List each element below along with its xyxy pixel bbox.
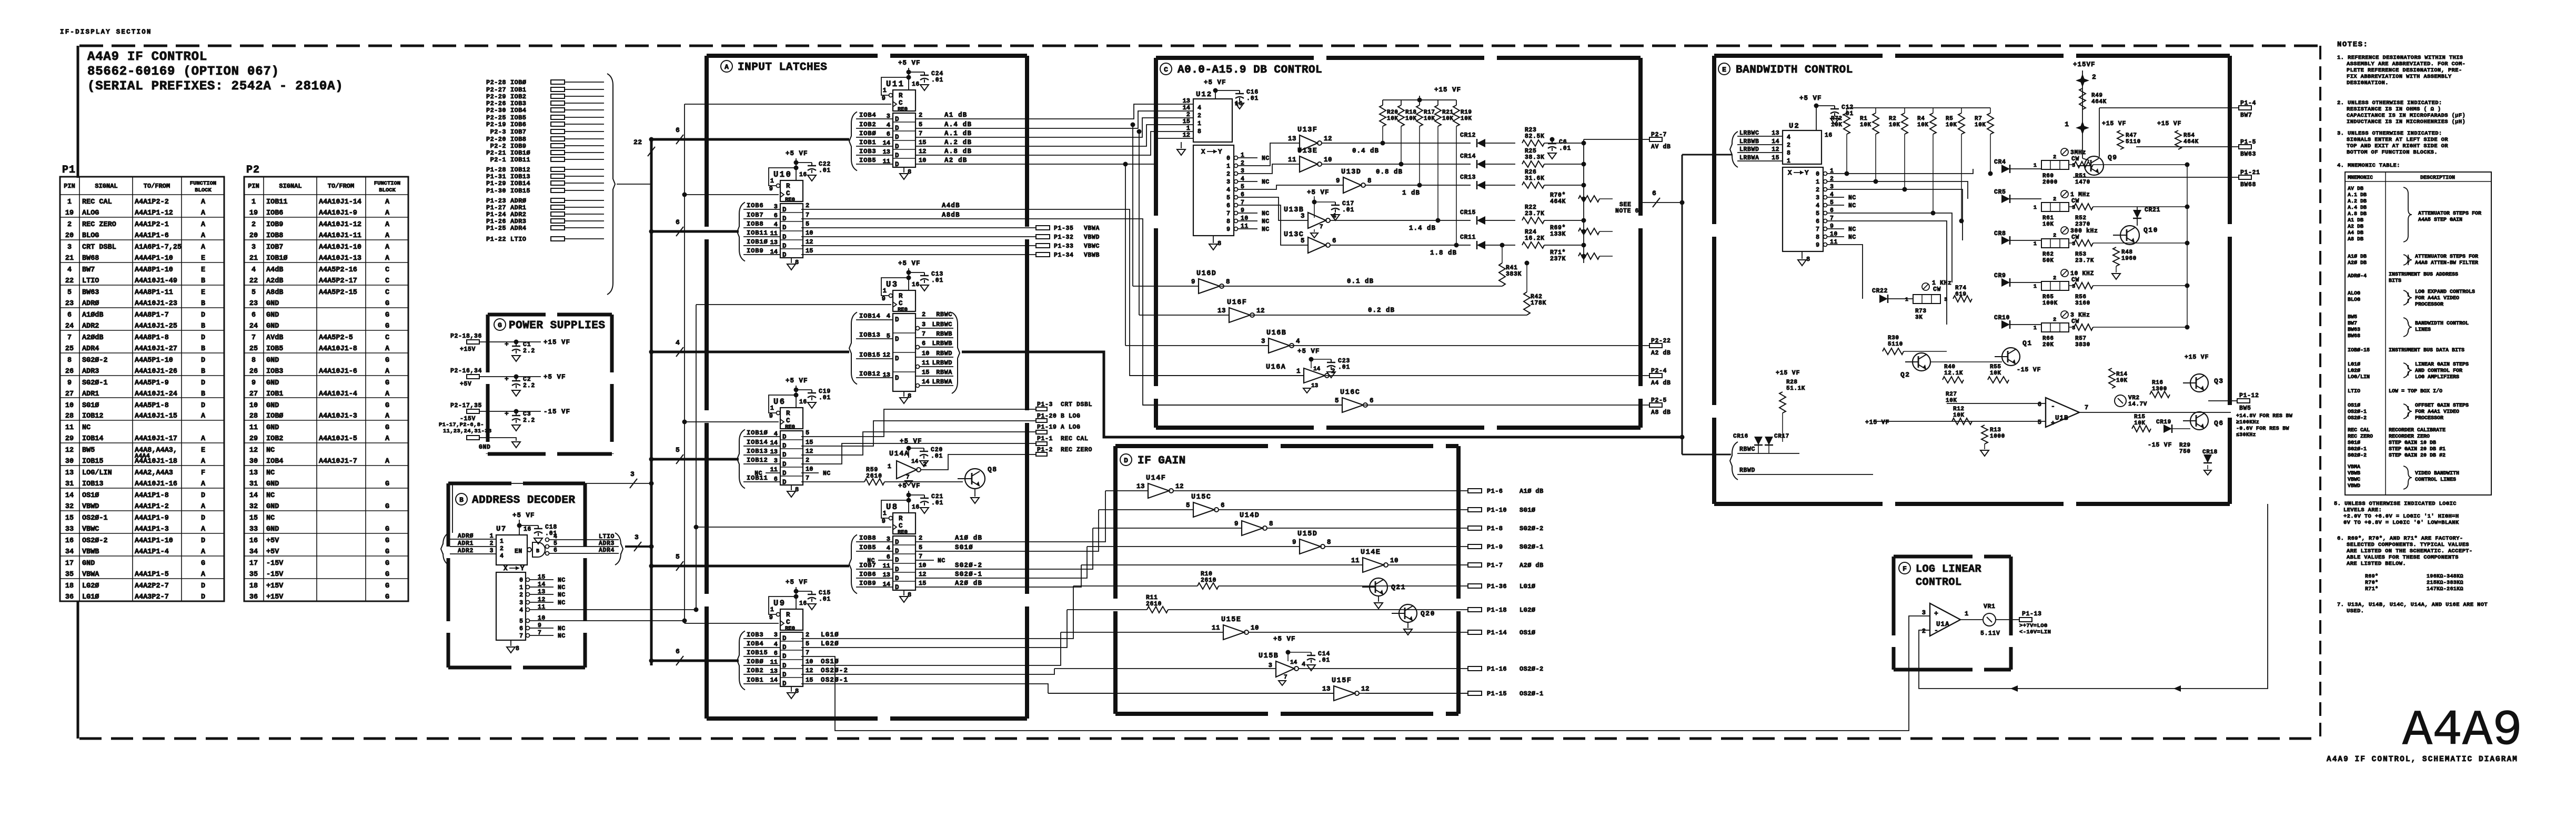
svg-text:B: B xyxy=(459,496,464,504)
svg-text:BANDWIDTH CONTROL: BANDWIDTH CONTROL xyxy=(1736,64,1853,76)
svg-text:7: 7 xyxy=(922,330,925,338)
svg-text:5: 5 xyxy=(806,429,809,437)
svg-text:1.4 dB: 1.4 dB xyxy=(1409,225,1436,232)
svg-text:14: 14 xyxy=(883,139,890,147)
svg-text:BOTTOM OF FUNCTION BLOCKS.: BOTTOM OF FUNCTION BLOCKS. xyxy=(2347,149,2438,156)
svg-text:RBWD: RBWD xyxy=(1739,467,1755,474)
svg-text:A4A2,A4A3: A4A2,A4A3 xyxy=(135,469,173,477)
svg-text:REC ZERO: REC ZERO xyxy=(1061,447,1092,453)
svg-text:IOB4: IOB4 xyxy=(510,107,526,114)
svg-text:11: 11 xyxy=(770,466,778,473)
svg-text:GND: GND xyxy=(266,379,279,387)
svg-text:TO/FROM: TO/FROM xyxy=(144,183,170,190)
svg-text:-15 VF: -15 VF xyxy=(2148,442,2172,449)
svg-text:R1: R1 xyxy=(1860,116,1867,122)
svg-text:3: 3 xyxy=(519,600,523,606)
svg-text:7: 7 xyxy=(919,553,922,560)
svg-text:D: D xyxy=(201,334,205,342)
svg-text:IOB3: IOB3 xyxy=(747,631,763,639)
svg-text:ADRØ: ADRØ xyxy=(82,300,99,308)
svg-text:1.8 dB: 1.8 dB xyxy=(1430,249,1457,257)
svg-text:A4A8P1-7: A4A8P1-7 xyxy=(135,311,169,319)
svg-text:GND: GND xyxy=(82,560,95,568)
svg-text:1000: 1000 xyxy=(1990,433,2005,440)
svg-text:A4A10J1-7: A4A10J1-7 xyxy=(319,458,357,466)
svg-text:NOTES:: NOTES: xyxy=(2337,41,2368,49)
svg-text:ADR2: ADR2 xyxy=(82,322,99,330)
svg-text:23: 23 xyxy=(249,300,258,308)
svg-text:.01: .01 xyxy=(1338,364,1350,371)
svg-text:BW68: BW68 xyxy=(2240,181,2256,188)
svg-text:VBWA: VBWA xyxy=(82,571,99,579)
svg-text:P1-31: P1-31 xyxy=(486,173,506,180)
svg-text:13: 13 xyxy=(883,148,890,156)
svg-text:A: A xyxy=(385,209,390,217)
svg-text:IOB7: IOB7 xyxy=(859,562,876,569)
svg-text:A4A10J1-8: A4A10J1-8 xyxy=(319,345,357,353)
svg-text:A4A1P2-2: A4A1P2-2 xyxy=(135,198,169,206)
svg-text:A8dB: A8dB xyxy=(942,211,960,219)
svg-text:FOR A4A1 VIDEO: FOR A4A1 VIDEO xyxy=(2415,409,2459,415)
svg-text:IOB7: IOB7 xyxy=(510,128,526,136)
svg-text:6: 6 xyxy=(676,648,680,655)
svg-text:U15B: U15B xyxy=(1259,652,1279,660)
svg-text:12: 12 xyxy=(806,448,813,455)
svg-text:12: 12 xyxy=(1324,135,1332,143)
svg-text:15: 15 xyxy=(806,247,813,255)
svg-text:OS2Ø-1: OS2Ø-1 xyxy=(82,514,108,522)
svg-text:LRBWA: LRBWA xyxy=(1739,155,1759,161)
svg-text:13: 13 xyxy=(65,469,74,477)
svg-text:14.7V: 14.7V xyxy=(2128,401,2147,408)
svg-text:REG: REG xyxy=(898,106,908,113)
svg-text:A4A5 STEP GAIN: A4A5 STEP GAIN xyxy=(2418,217,2462,223)
svg-text:6: 6 xyxy=(1332,237,1336,245)
svg-text:9: 9 xyxy=(769,412,773,420)
svg-text:NC: NC xyxy=(1848,203,1856,209)
svg-text:14: 14 xyxy=(1772,138,1779,145)
svg-text:LRBWC: LRBWC xyxy=(1739,130,1759,137)
svg-text:10: 10 xyxy=(922,350,929,357)
svg-text:LRBWD: LRBWD xyxy=(932,359,952,367)
svg-text:16: 16 xyxy=(249,537,258,545)
svg-text:A4A10J1-9: A4A10J1-9 xyxy=(319,209,357,217)
svg-text:0V TO +0.8V = LOGIC '0' LOW=BL: 0V TO +0.8V = LOGIC '0' LOW=BLANK xyxy=(2343,520,2459,526)
svg-text:34: 34 xyxy=(65,548,74,556)
svg-text:RBWC: RBWC xyxy=(936,311,952,318)
svg-text:14: 14 xyxy=(1313,366,1321,372)
svg-text:1: 1 xyxy=(1186,125,1190,132)
svg-text:16: 16 xyxy=(1235,100,1243,107)
svg-text:+5 VF: +5 VF xyxy=(1204,79,1226,86)
svg-text:A: A xyxy=(385,232,390,240)
svg-text:R53: R53 xyxy=(2075,251,2087,258)
svg-text:P1-4: P1-4 xyxy=(2240,100,2256,107)
svg-text:C: C xyxy=(899,522,903,530)
svg-text:D: D xyxy=(782,251,787,259)
svg-text:RECORDER CALIBRATE: RECORDER CALIBRATE xyxy=(2389,428,2446,433)
svg-text:G: G xyxy=(385,560,389,568)
svg-text:15: 15 xyxy=(806,676,813,684)
svg-text:2: 2 xyxy=(919,112,922,119)
svg-text:NC: NC xyxy=(266,469,275,477)
svg-text:INPUT LATCHES: INPUT LATCHES xyxy=(738,62,827,74)
svg-text:U8: U8 xyxy=(886,502,899,512)
svg-text:464K: 464K xyxy=(2091,99,2107,105)
svg-text:0.8 dB: 0.8 dB xyxy=(1376,168,1403,176)
svg-text:D: D xyxy=(201,582,205,590)
svg-text:GND: GND xyxy=(266,525,279,533)
svg-text:21: 21 xyxy=(249,255,258,262)
svg-text:IOB3: IOB3 xyxy=(510,100,526,107)
svg-text:SG1Ø: SG1Ø xyxy=(1520,507,1535,514)
svg-text:IOB5: IOB5 xyxy=(859,157,876,164)
svg-text:U16A: U16A xyxy=(1266,363,1286,371)
svg-text:A2Ø dB: A2Ø dB xyxy=(1520,562,1544,569)
svg-text:A4A9: A4A9 xyxy=(2402,702,2522,759)
svg-text:R40: R40 xyxy=(1944,364,1956,370)
svg-text:SG2Ø-2: SG2Ø-2 xyxy=(82,357,108,365)
svg-text:-: - xyxy=(2051,402,2055,410)
svg-text:IOB3: IOB3 xyxy=(859,148,876,155)
svg-text:6: 6 xyxy=(1221,502,1225,509)
svg-text:+2.0V TO +6.0V = LOGIC '1' HIG: +2.0V TO +6.0V = LOGIC '1' HIGH=H xyxy=(2343,513,2459,520)
svg-text:D: D xyxy=(782,242,787,250)
svg-text:R19: R19 xyxy=(1461,109,1472,116)
svg-text:IOB12: IOB12 xyxy=(747,457,768,464)
svg-text:.01: .01 xyxy=(1559,145,1571,152)
svg-text:36: 36 xyxy=(65,593,74,601)
svg-text:P1-21: P1-21 xyxy=(2240,169,2260,176)
svg-text:R60: R60 xyxy=(2042,173,2054,179)
svg-text:ADR3: ADR3 xyxy=(82,368,99,376)
svg-text:A4A5P2-15: A4A5P2-15 xyxy=(319,289,357,297)
svg-text:LOG/LIN: LOG/LIN xyxy=(2348,374,2370,380)
svg-text:R70*: R70* xyxy=(2365,580,2378,586)
svg-text:U15D: U15D xyxy=(1297,530,1317,538)
svg-text:178K: 178K xyxy=(1531,300,1546,307)
svg-text:+15VF: +15VF xyxy=(2073,61,2096,68)
svg-text:A4A1P1-8: A4A1P1-8 xyxy=(135,492,169,500)
svg-text:+: + xyxy=(505,410,509,418)
svg-text:4: 4 xyxy=(251,266,256,274)
svg-text:3: 3 xyxy=(630,470,635,478)
svg-text:19: 19 xyxy=(65,209,74,217)
svg-text:STEP GAIN 20 DB #2: STEP GAIN 20 DB #2 xyxy=(2389,453,2446,459)
svg-text:11: 11 xyxy=(883,158,890,165)
svg-text:6: 6 xyxy=(676,218,680,226)
svg-text:24: 24 xyxy=(249,322,258,330)
svg-text:3: 3 xyxy=(1816,195,1819,201)
svg-text:1960: 1960 xyxy=(2121,256,2137,262)
svg-text:2000: 2000 xyxy=(2042,179,2058,186)
svg-text:ATTENUATOR STEPS FOR: ATTENUATOR STEPS FOR xyxy=(2418,211,2481,217)
svg-text:E: E xyxy=(201,447,205,454)
svg-text:A4A1P1-2: A4A1P1-2 xyxy=(135,503,169,511)
svg-text:10: 10 xyxy=(919,562,926,569)
svg-text:11: 11 xyxy=(770,659,778,666)
svg-text:A4A4: A4A4 xyxy=(135,452,150,460)
svg-text:P1-5: P1-5 xyxy=(2240,139,2256,146)
svg-text:27: 27 xyxy=(249,390,258,398)
svg-text:P2-3: P2-3 xyxy=(490,128,506,136)
svg-text:1: 1 xyxy=(1905,297,1908,303)
svg-text:A2Ø DB: A2Ø DB xyxy=(2348,260,2367,266)
svg-text:A4A10J1-24: A4A10J1-24 xyxy=(135,390,177,398)
svg-text:NC: NC xyxy=(823,470,831,477)
svg-text:IOB12: IOB12 xyxy=(859,370,881,378)
svg-text:G: G xyxy=(385,548,389,556)
svg-text:ARE LISTED ON THE SCHEMATIC. A: ARE LISTED ON THE SCHEMATIC. ACCEPT- xyxy=(2347,548,2472,554)
svg-text:NC: NC xyxy=(558,625,566,632)
svg-text:196KΩ-348KΩ: 196KΩ-348KΩ xyxy=(2427,574,2463,580)
svg-text:-0.6V FOR RES BW: -0.6V FOR RES BW xyxy=(2236,426,2289,432)
svg-text:35: 35 xyxy=(65,571,74,579)
svg-text:A4A1P1-6: A4A1P1-6 xyxy=(135,232,169,240)
svg-text:14: 14 xyxy=(1290,660,1297,666)
svg-text:U15F: U15F xyxy=(1332,677,1352,685)
svg-text:CR13: CR13 xyxy=(1460,174,1476,181)
svg-text:5: 5 xyxy=(1816,210,1819,217)
svg-text:ATTENUATOR STEPS FOR: ATTENUATOR STEPS FOR xyxy=(2415,254,2478,260)
svg-text:3: 3 xyxy=(1261,338,1265,345)
svg-text:3: 3 xyxy=(1226,179,1230,186)
svg-text:ADR2: ADR2 xyxy=(458,548,474,554)
svg-text:BW68: BW68 xyxy=(2348,333,2360,339)
svg-text:NC: NC xyxy=(558,600,566,606)
svg-text:A4A10J1-13: A4A10J1-13 xyxy=(319,255,361,262)
svg-text:LG1Ø: LG1Ø xyxy=(1520,583,1535,590)
svg-text:OS1Ø: OS1Ø xyxy=(821,658,839,665)
svg-text:NC: NC xyxy=(82,424,90,432)
svg-text:13: 13 xyxy=(249,469,258,477)
svg-text:SG2Ø-1: SG2Ø-1 xyxy=(955,571,982,578)
svg-text:10K: 10K xyxy=(1405,116,1417,122)
svg-text:A: A xyxy=(201,480,206,488)
svg-text:R56: R56 xyxy=(2075,294,2087,300)
svg-text:P2-28: P2-28 xyxy=(486,79,506,86)
svg-text:3: 3 xyxy=(1269,662,1272,669)
svg-text:8: 8 xyxy=(1367,177,1372,185)
svg-text:PIN: PIN xyxy=(248,183,259,190)
svg-text:22: 22 xyxy=(633,138,642,146)
svg-text:U14F: U14F xyxy=(1146,474,1166,482)
svg-text:3: 3 xyxy=(1944,297,1947,303)
svg-text:.01: .01 xyxy=(819,596,831,603)
svg-text:6: 6 xyxy=(887,130,890,138)
svg-text:LINEAR GAIN STEPS: LINEAR GAIN STEPS xyxy=(2415,362,2469,368)
svg-text:4: 4 xyxy=(1296,338,1300,345)
svg-text:10K: 10K xyxy=(1975,122,1986,128)
svg-text:GND: GND xyxy=(266,402,279,410)
svg-text:A: A xyxy=(724,63,729,71)
svg-text:10K: 10K xyxy=(1889,122,1900,128)
svg-text:A8 DB: A8 DB xyxy=(2348,237,2363,242)
svg-text:VBWB: VBWB xyxy=(1084,252,1100,259)
svg-text:RBWA: RBWA xyxy=(936,369,952,376)
svg-text:28: 28 xyxy=(65,412,74,420)
svg-text:+5 VF: +5 VF xyxy=(786,377,808,385)
svg-text:A.8 dB: A.8 dB xyxy=(944,148,972,155)
svg-text:LOG EXPAND CONTROLS: LOG EXPAND CONTROLS xyxy=(2415,289,2475,295)
svg-text:P2-29: P2-29 xyxy=(486,93,506,100)
svg-text:2: 2 xyxy=(2092,73,2096,81)
svg-text:NC: NC xyxy=(558,592,566,599)
svg-text:ALOG: ALOG xyxy=(82,209,99,217)
svg-text:9: 9 xyxy=(1191,278,1195,286)
svg-text:REG: REG xyxy=(898,529,908,535)
svg-text:12: 12 xyxy=(65,447,74,454)
svg-text:REC ZERO: REC ZERO xyxy=(82,221,116,229)
svg-text:IOB5: IOB5 xyxy=(859,544,876,551)
svg-text:2: 2 xyxy=(806,457,809,464)
svg-text:NC: NC xyxy=(266,492,275,500)
svg-text:237K: 237K xyxy=(1550,256,1566,262)
svg-text:A4A1P1-5: A4A1P1-5 xyxy=(135,571,169,579)
svg-text:IOB8: IOB8 xyxy=(510,136,526,143)
svg-text:A4A9 IF CONTROL, SCHEMATIC DIA: A4A9 IF CONTROL, SCHEMATIC DIAGRAM xyxy=(2327,755,2518,764)
svg-text:U7: U7 xyxy=(496,525,507,533)
svg-text:5: 5 xyxy=(806,220,809,228)
svg-text:D: D xyxy=(201,311,205,319)
svg-text:VBWC: VBWC xyxy=(2348,477,2360,483)
svg-text:P2-18,36: P2-18,36 xyxy=(450,333,482,340)
svg-text:0: 0 xyxy=(519,577,523,584)
svg-text:B: B xyxy=(201,390,205,398)
svg-text:LG1Ø: LG1Ø xyxy=(82,593,99,601)
svg-text:VBWD: VBWD xyxy=(82,503,99,511)
svg-text:-15 VF: -15 VF xyxy=(2017,367,2041,373)
svg-text:14: 14 xyxy=(65,492,74,500)
svg-text:R30: R30 xyxy=(1888,335,1899,341)
svg-text:D: D xyxy=(782,662,787,670)
svg-text:32: 32 xyxy=(65,503,74,511)
svg-text:P2-7: P2-7 xyxy=(1651,132,1667,138)
svg-text:P2-25: P2-25 xyxy=(486,114,506,122)
svg-text:1: 1 xyxy=(1787,158,1790,165)
svg-text:C: C xyxy=(786,417,790,424)
svg-text:1: 1 xyxy=(2034,284,2037,290)
svg-text:IOB6: IOB6 xyxy=(859,571,876,578)
svg-text:U2: U2 xyxy=(1789,122,1800,130)
svg-text:A.4 dB: A.4 dB xyxy=(944,121,972,128)
svg-text:13: 13 xyxy=(1217,307,1226,315)
svg-text:BW5: BW5 xyxy=(2348,315,2357,320)
svg-text:≥100KHz: ≥100KHz xyxy=(2236,420,2259,426)
svg-text:3: 3 xyxy=(774,631,778,639)
svg-text:P2-16,34: P2-16,34 xyxy=(450,368,482,375)
svg-text:IOB5: IOB5 xyxy=(510,114,526,122)
svg-text:IOB12: IOB12 xyxy=(82,412,104,420)
svg-text:31.6K: 31.6K xyxy=(1525,175,1545,182)
svg-text:14: 14 xyxy=(770,248,778,256)
svg-text:VR1: VR1 xyxy=(1984,603,1996,610)
svg-text:9: 9 xyxy=(1234,520,1239,528)
svg-text:2: 2 xyxy=(806,631,809,639)
svg-text:11: 11 xyxy=(249,424,258,432)
svg-text:18: 18 xyxy=(65,582,74,590)
svg-text:C: C xyxy=(786,619,790,626)
svg-text:Q21: Q21 xyxy=(1391,583,1406,591)
svg-text:A4A10J1-4: A4A10J1-4 xyxy=(319,390,357,398)
svg-text:R49: R49 xyxy=(2091,93,2103,99)
svg-text:U9: U9 xyxy=(773,599,786,608)
svg-text:ADDRESS DECODER: ADDRESS DECODER xyxy=(472,494,576,507)
svg-text:G: G xyxy=(385,480,389,488)
svg-text:A4A10J1-49: A4A10J1-49 xyxy=(135,277,177,285)
svg-text:10K: 10K xyxy=(1946,398,1957,404)
svg-text:E: E xyxy=(201,266,205,274)
svg-text:LRBWC: LRBWC xyxy=(932,321,952,328)
svg-text:IOBØ: IOBØ xyxy=(859,130,876,137)
svg-text:LTIO: LTIO xyxy=(82,277,99,285)
svg-text:2: 2 xyxy=(919,534,922,542)
svg-text:U13E: U13E xyxy=(1297,147,1317,155)
svg-text:A4A5P2-16: A4A5P2-16 xyxy=(319,266,357,274)
svg-text:R51: R51 xyxy=(2075,173,2087,179)
svg-text:5. UNLESS OTHERWISE INDICATED: 5. UNLESS OTHERWISE INDICATED LOGIC xyxy=(2334,501,2457,507)
svg-text:D: D xyxy=(782,234,787,241)
svg-text:PLETE REFERENCE DESIGNATION, P: PLETE REFERENCE DESIGNATION, PRE- xyxy=(2347,67,2462,74)
svg-text:OS2Ø-2: OS2Ø-2 xyxy=(82,537,108,545)
svg-text:D: D xyxy=(201,357,205,365)
svg-text:CW: CW xyxy=(1933,286,1941,293)
svg-text:16: 16 xyxy=(799,600,807,607)
svg-text:BLOCK: BLOCK xyxy=(379,187,396,194)
svg-text:R65: R65 xyxy=(2042,294,2054,300)
svg-text:G: G xyxy=(385,571,389,579)
svg-text:SIGNALS ENTER AT LEFT SIDE OR: SIGNALS ENTER AT LEFT SIDE OR xyxy=(2347,137,2448,143)
svg-text:5: 5 xyxy=(1335,397,1339,405)
svg-text:IOB9: IOB9 xyxy=(266,221,283,229)
svg-text:5: 5 xyxy=(519,618,523,625)
svg-text:IOB8: IOB8 xyxy=(747,220,763,228)
svg-text:ASSEMBLY ARE ABBREVIATED. FOR: ASSEMBLY ARE ABBREVIATED. FOR COM- xyxy=(2347,61,2466,67)
svg-text:2: 2 xyxy=(922,311,925,318)
svg-text:8: 8 xyxy=(1787,150,1790,157)
svg-text:0: 0 xyxy=(1816,171,1819,178)
svg-text:R20: R20 xyxy=(1387,109,1398,116)
svg-text:3: 3 xyxy=(774,203,778,210)
svg-text:+15 VF: +15 VF xyxy=(2102,120,2126,127)
svg-text:FIX ABBREVIATION WITH ASSEMBLY: FIX ABBREVIATION WITH ASSEMBLY xyxy=(2347,74,2452,80)
svg-text:2: 2 xyxy=(67,221,72,229)
svg-text:B: B xyxy=(201,345,205,353)
svg-text:P2-1: P2-1 xyxy=(490,156,506,164)
svg-text:CR5: CR5 xyxy=(1994,189,2006,196)
svg-text:1: 1 xyxy=(2065,120,2069,128)
svg-text:REC CAL: REC CAL xyxy=(2348,428,2370,433)
svg-text:10: 10 xyxy=(65,402,74,410)
svg-text:P1-3: P1-3 xyxy=(1037,401,1053,408)
svg-text:4: 4 xyxy=(519,607,523,614)
svg-text:LRBWD: LRBWD xyxy=(1739,146,1759,153)
svg-text:1: 1 xyxy=(888,463,891,470)
svg-text:4: 4 xyxy=(554,533,557,540)
svg-text:7: 7 xyxy=(67,334,72,342)
svg-text:IOB9: IOB9 xyxy=(747,247,763,255)
svg-text:R29: R29 xyxy=(2179,442,2191,449)
svg-text:U13D: U13D xyxy=(1341,168,1361,176)
svg-text:8: 8 xyxy=(795,259,799,266)
svg-text:2610: 2610 xyxy=(866,473,882,480)
svg-text:+5 VF: +5 VF xyxy=(900,438,922,445)
svg-text:SG2Ø-1: SG2Ø-1 xyxy=(82,379,108,387)
svg-text:IOB4: IOB4 xyxy=(747,640,763,648)
svg-text:A4A1P2-1: A4A1P2-1 xyxy=(135,221,169,229)
svg-text:4: 4 xyxy=(1816,203,1819,209)
svg-text:A: A xyxy=(201,232,206,240)
